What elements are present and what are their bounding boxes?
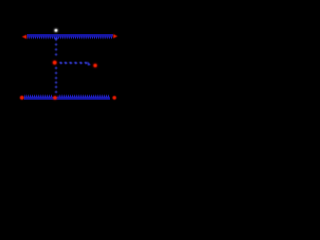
node: red impact dot on bottom plate — [53, 94, 58, 97]
node arrow-left (top plate left end, red) — [22, 35, 27, 39]
wire: horizontal dashed velocity arrow — [59, 62, 88, 64]
wire: top plate solid line — [27, 34, 113, 36]
wire: first downward arrowhead below hole — [54, 38, 59, 42]
wire: bottom plate solid line — [24, 97, 110, 99]
wire: vertical dashed trajectory — [54, 43, 58, 94]
node: red particle on trajectory — [53, 61, 57, 65]
node: white hole dot glow — [54, 29, 58, 33]
node dot (bottom plate right end, red) — [113, 96, 117, 100]
node dot (bottom plate left end, red) — [20, 96, 24, 100]
wire: final arrowhead of horizontal arrow — [88, 61, 91, 65]
node: red dot at arrow target — [93, 64, 97, 68]
node arrow-right (top plate right end, red) — [113, 34, 117, 38]
bottom plate hatch teeth — [24, 94, 109, 97]
top plate hatch teeth — [27, 36, 112, 39]
